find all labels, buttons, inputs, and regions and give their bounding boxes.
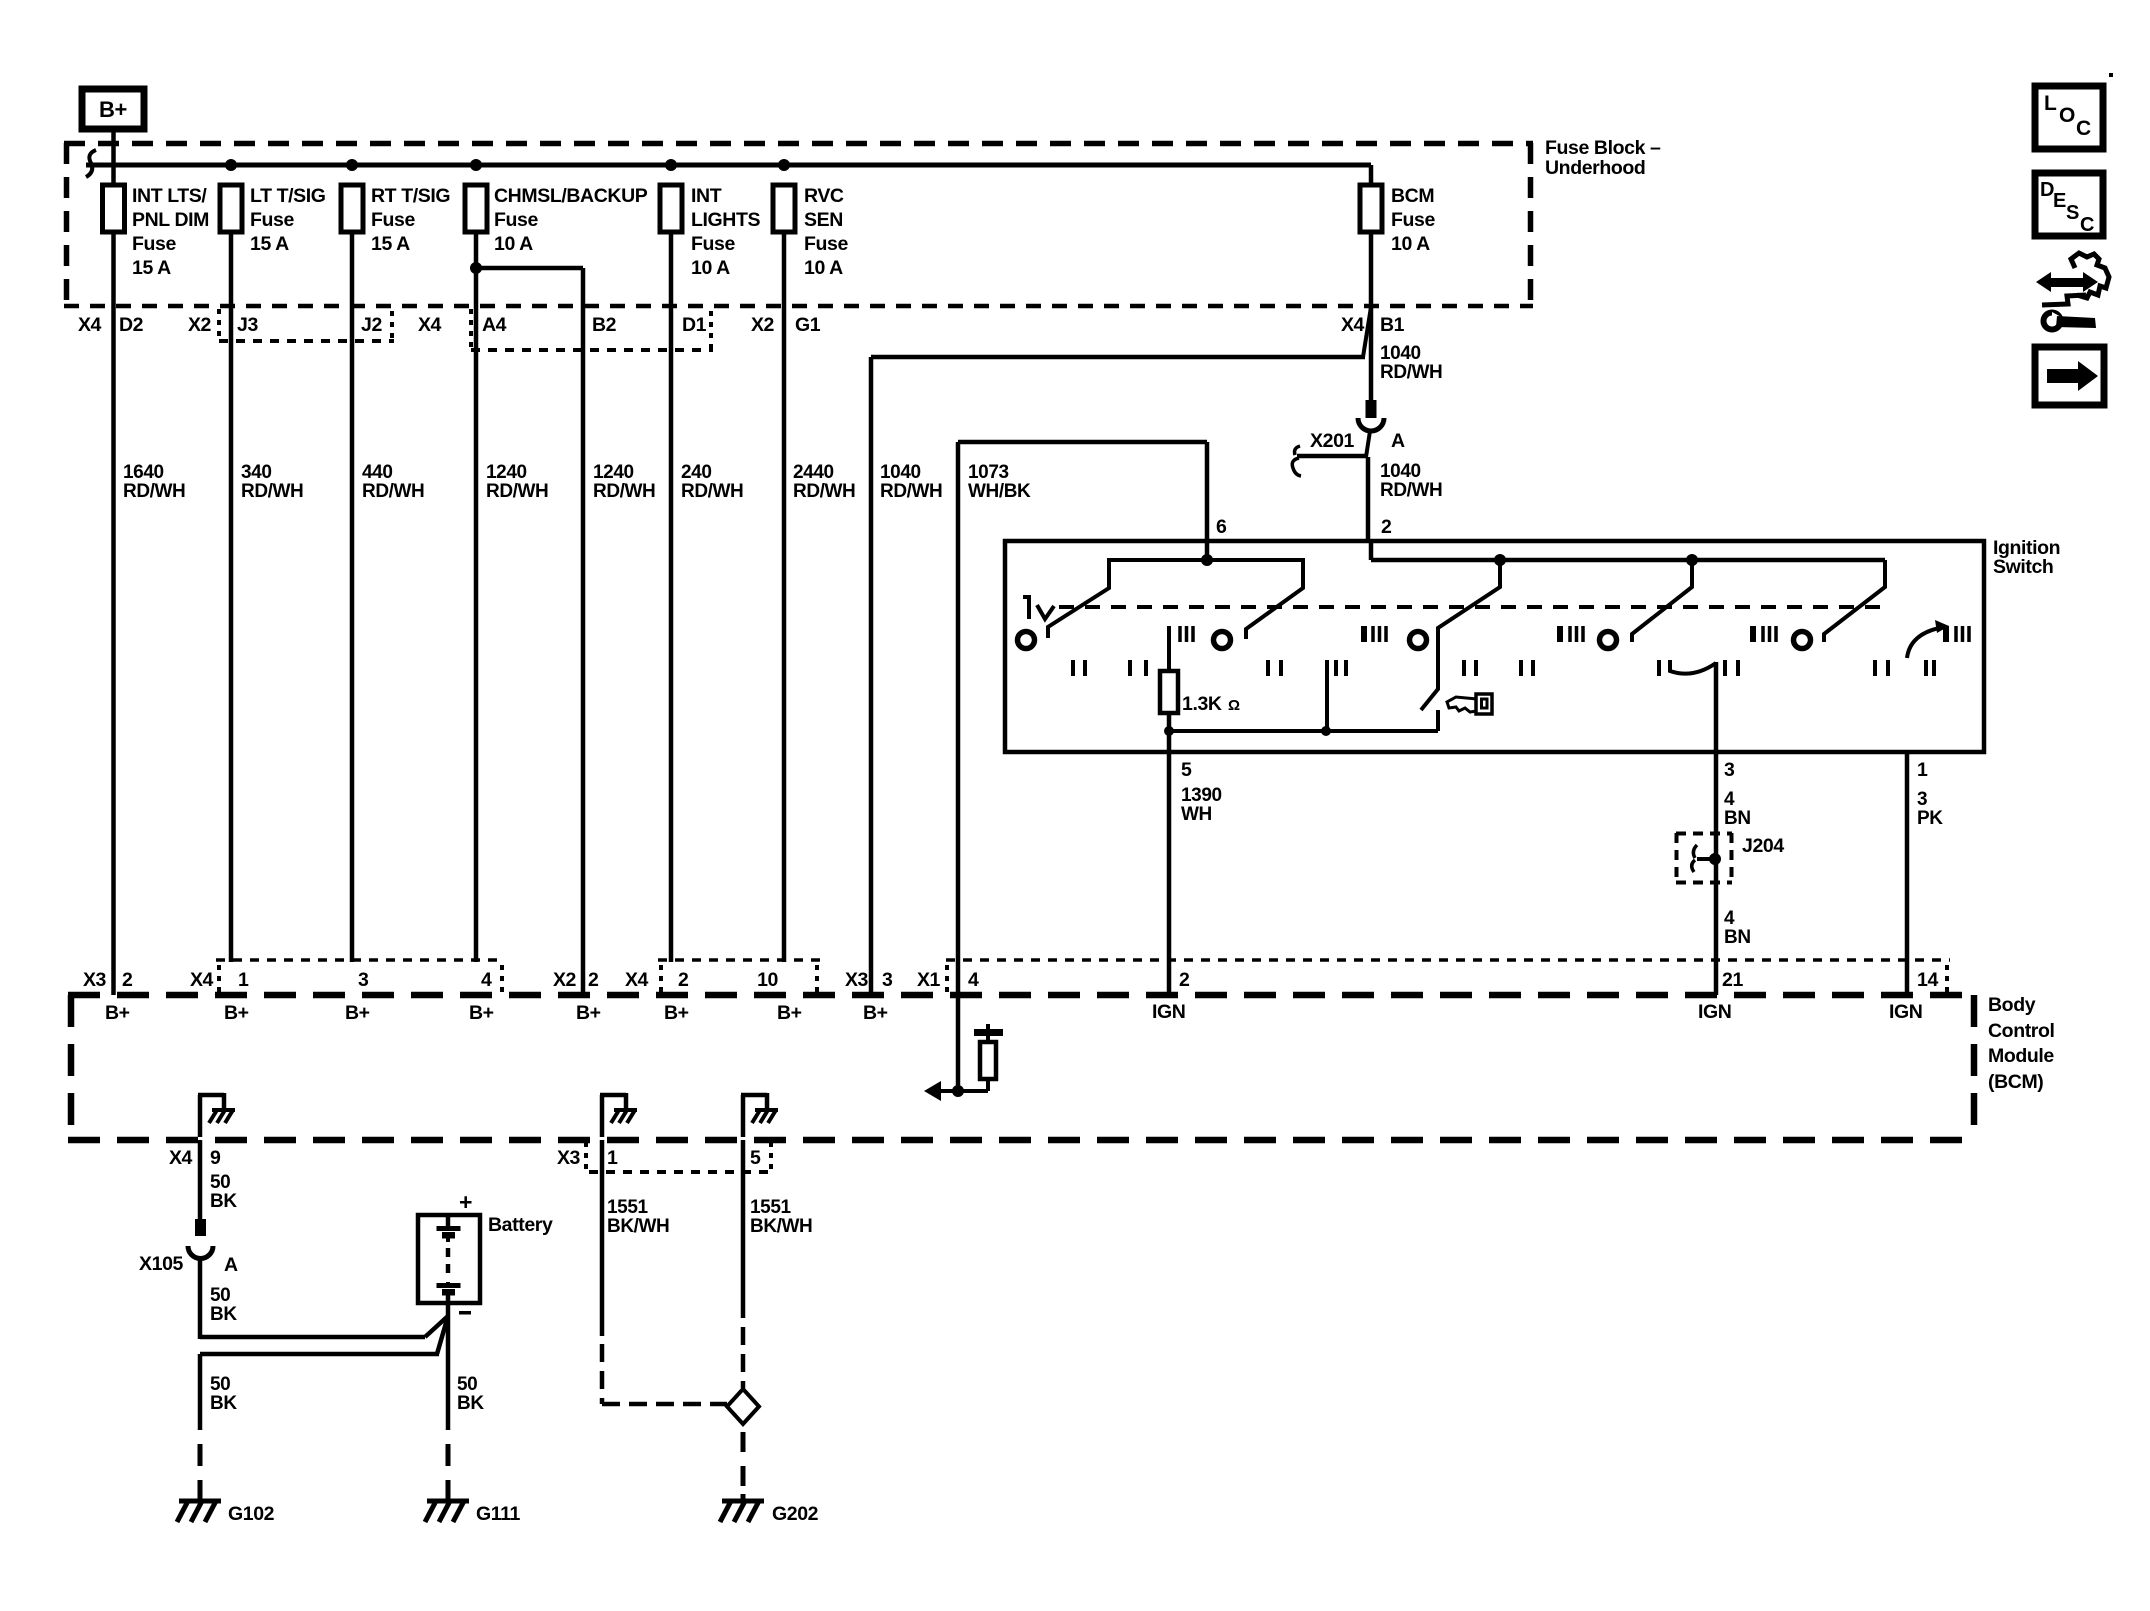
svg-text:B+: B+ — [224, 1002, 249, 1024]
svg-text:1: 1 — [238, 969, 249, 991]
svg-text:D1: D1 — [682, 314, 707, 336]
ignition ticks II j — [1926, 660, 1934, 676]
svg-text:50: 50 — [457, 1374, 477, 1395]
junction ign bus c — [1686, 554, 1698, 566]
svg-text:2: 2 — [122, 969, 133, 991]
pin label X4 D2 — [78, 314, 144, 336]
svg-text:1073: 1073 — [968, 462, 1009, 483]
bcm connector face X1 dashed — [946, 958, 1950, 962]
ignition ticks II d — [1336, 660, 1346, 676]
svg-text:240: 240 — [681, 462, 712, 483]
svg-text:21: 21 — [1722, 969, 1743, 991]
wire 1640 RD/WH fuse1 to BCM X3-2 — [111, 232, 116, 995]
ground G111 — [425, 1444, 521, 1525]
wire B+ drop to fuse 1 — [111, 129, 116, 186]
svg-text:RD/WH: RD/WH — [123, 481, 185, 502]
svg-text:B+: B+ — [576, 1002, 601, 1024]
svg-text:50: 50 — [210, 1374, 230, 1395]
bcm internal ground X3-5 — [741, 1093, 778, 1137]
ignition ticks II i — [1875, 660, 1888, 676]
svg-text:J204: J204 — [1742, 835, 1784, 857]
svg-text:B+: B+ — [345, 1002, 370, 1024]
wire label 1390 WH — [1181, 785, 1222, 825]
svg-text:X201: X201 — [1310, 430, 1354, 452]
svg-text:BK: BK — [210, 1191, 237, 1212]
resistor 1.3Kohm — [1160, 626, 1240, 715]
wire label 1073 WH/BK — [968, 462, 1031, 502]
ignition ticks II c — [1268, 660, 1281, 676]
net label B+ at 863 — [863, 1002, 888, 1024]
pin label 4 — [481, 965, 502, 992]
ignition switch box — [1005, 541, 1984, 752]
svg-text:Fuse Block –: Fuse Block – — [1545, 137, 1661, 159]
pin label X2 G1 — [751, 314, 821, 336]
svg-text:RD/WH: RD/WH — [241, 481, 303, 502]
svg-text:BN: BN — [1724, 927, 1751, 948]
svg-text:E: E — [2053, 190, 2066, 212]
ignition bus pin2 — [1371, 541, 1885, 560]
svg-text:Fuse: Fuse — [250, 209, 294, 231]
svg-text:X4: X4 — [1341, 314, 1365, 336]
svg-text:1551: 1551 — [750, 1197, 792, 1218]
icon LOC box — [2035, 86, 2103, 149]
svg-text:X4: X4 — [625, 969, 649, 991]
ignition blade c — [1632, 560, 1692, 642]
pin label 3 — [358, 969, 369, 991]
svg-text:B+: B+ — [99, 97, 127, 122]
wire label 240 RD/WH — [681, 462, 743, 502]
svg-text:Body: Body — [1988, 994, 2036, 1016]
svg-text:B+: B+ — [777, 1002, 802, 1024]
svg-text:1640: 1640 — [123, 462, 164, 483]
pin label X4 2 — [625, 965, 689, 992]
svg-text:Fuse: Fuse — [691, 233, 735, 255]
svg-text:9: 9 — [210, 1147, 221, 1169]
svg-text:2: 2 — [1381, 516, 1392, 538]
splice J204 box — [1676, 833, 1784, 883]
wire battery to G111 — [446, 1316, 451, 1430]
junction BCM internal — [952, 1085, 964, 1097]
wire label 3 PK — [1917, 789, 1943, 829]
ignition contact circle 5 — [1794, 632, 1811, 649]
pin label 6 — [1216, 516, 1227, 538]
junction bus-fuse6 — [778, 159, 790, 171]
svg-text:3: 3 — [1724, 759, 1735, 781]
svg-text:G102: G102 — [228, 1503, 275, 1525]
pin label X4 9 — [169, 1147, 221, 1169]
svg-text:X2: X2 — [751, 314, 775, 336]
label Ignition Switch — [1993, 537, 2060, 578]
svg-text:Module: Module — [1988, 1045, 2054, 1067]
svg-text:A4: A4 — [482, 314, 507, 336]
wire label 1240 RD/WH — [486, 462, 548, 502]
connector box J3-J2 dotted — [219, 339, 394, 343]
icon continue arrow box — [2035, 347, 2104, 405]
ignition ticks II g — [1657, 660, 1661, 676]
svg-text:IGN: IGN — [1698, 1001, 1731, 1023]
svg-text:+: + — [459, 1189, 472, 1215]
svg-text:X2: X2 — [188, 314, 212, 336]
connector box A4-D1 dotted — [471, 348, 713, 352]
svg-text:RD/WH: RD/WH — [593, 481, 655, 502]
wire 1240 RD/WH fuse4 to X4-4 — [474, 232, 479, 962]
svg-text:D: D — [2040, 179, 2054, 201]
wire 1551 BK/WH pin5 — [741, 1140, 746, 1388]
svg-text:Fuse: Fuse — [494, 209, 538, 231]
fuse F3 RT T/SIG 15A — [341, 185, 450, 255]
svg-text:340: 340 — [241, 462, 272, 483]
bcm connector face X4b dashed — [658, 958, 820, 962]
wire label 340 RD/WH — [241, 462, 303, 502]
svg-text:X4: X4 — [78, 314, 102, 336]
svg-text:10: 10 — [757, 969, 778, 991]
svg-text:Fuse: Fuse — [371, 209, 415, 231]
net label B+ at 576 — [576, 1002, 601, 1024]
svg-text:PK: PK — [1917, 808, 1943, 829]
wire 4 BN J204 to BCM 21 — [1714, 883, 1719, 995]
svg-text:WH/BK: WH/BK — [968, 481, 1031, 502]
svg-text:RT T/SIG: RT T/SIG — [371, 185, 450, 207]
junction fuse4 branch — [470, 262, 482, 274]
svg-text:Battery: Battery — [488, 1214, 553, 1236]
pin label X4 1 — [190, 965, 249, 992]
svg-text:G111: G111 — [476, 1503, 521, 1525]
svg-text:RD/WH: RD/WH — [362, 481, 424, 502]
svg-text:X4: X4 — [169, 1147, 193, 1169]
net label B+ at 105 — [105, 1002, 130, 1024]
svg-text:1: 1 — [607, 1147, 618, 1169]
ignition blade b — [1421, 560, 1500, 710]
ignition ticks II f — [1521, 660, 1533, 676]
pin label X2 J3 — [188, 309, 259, 340]
splice J204 symbol — [1692, 834, 1721, 883]
svg-text:3: 3 — [882, 969, 893, 991]
ignition arc pin1 — [1907, 620, 1949, 658]
svg-text:14: 14 — [1917, 969, 1938, 991]
net label B+ at 345 — [345, 1002, 370, 1024]
svg-text:G1: G1 — [795, 314, 821, 336]
svg-text:RVC: RVC — [804, 185, 844, 207]
svg-text:J2: J2 — [361, 314, 382, 336]
wire label 1040 RD/WH upper right — [1380, 343, 1442, 383]
svg-text:Ω: Ω — [1228, 697, 1240, 714]
wire 1073 into BCM — [956, 962, 961, 1091]
pin label 2 — [1381, 516, 1392, 538]
connector X105 — [139, 1219, 238, 1276]
svg-text:X4: X4 — [418, 314, 442, 336]
ignition ticks III e — [1946, 626, 1969, 642]
svg-text:1: 1 — [1917, 759, 1928, 781]
svg-text:Fuse: Fuse — [1391, 209, 1435, 231]
svg-text:RD/WH: RD/WH — [681, 481, 743, 502]
pin label J2 — [361, 311, 392, 340]
svg-text:LT T/SIG: LT T/SIG — [250, 185, 326, 207]
svg-text:440: 440 — [362, 462, 393, 483]
svg-text:1240: 1240 — [486, 462, 527, 483]
icon DESC box — [2035, 173, 2103, 236]
svg-text:B1: B1 — [1380, 314, 1405, 336]
svg-text:1040: 1040 — [880, 462, 921, 483]
svg-text:Fuse: Fuse — [132, 233, 176, 255]
wire 340 RD/WH fuse2 to X4-1 — [229, 232, 234, 962]
svg-text:B+: B+ — [664, 1002, 689, 1024]
ground G202 — [720, 1432, 819, 1525]
bcm internal resistor — [958, 1024, 1003, 1091]
ignition bottom bus — [1169, 710, 1438, 731]
pin label X3 2 — [83, 969, 133, 991]
svg-text:IGN: IGN — [1152, 1001, 1185, 1023]
pin label B2 — [592, 314, 617, 336]
svg-text:X4: X4 — [190, 969, 214, 991]
svg-text:INT: INT — [691, 185, 722, 207]
svg-text:C: C — [2080, 214, 2094, 236]
net label B+ at 664 — [664, 1002, 689, 1024]
svg-text:A: A — [224, 1254, 238, 1276]
svg-text:5: 5 — [750, 1147, 761, 1169]
svg-text:BK/WH: BK/WH — [750, 1216, 812, 1237]
svg-text:15 A: 15 A — [250, 233, 289, 255]
ignition internal dashed line — [1059, 605, 1881, 609]
svg-text:1390: 1390 — [1181, 785, 1222, 806]
svg-text:X3: X3 — [845, 969, 869, 991]
svg-text:WH: WH — [1181, 804, 1212, 825]
svg-text:RD/WH: RD/WH — [1380, 480, 1442, 501]
svg-text:1.3K: 1.3K — [1182, 693, 1222, 715]
wire label 1040 RD/WH lower — [1380, 461, 1442, 501]
svg-text:1040: 1040 — [1380, 461, 1421, 482]
svg-text:INT LTS/: INT LTS/ — [132, 185, 207, 207]
pin label X4 A4 — [418, 309, 507, 349]
svg-text:O: O — [2059, 104, 2075, 127]
junction bus-fuse3 — [346, 159, 358, 171]
pin label X1 4 — [917, 965, 979, 992]
svg-text:RD/WH: RD/WH — [793, 481, 855, 502]
svg-text:1240: 1240 — [593, 462, 634, 483]
pin label X3 1 5 — [557, 1142, 771, 1172]
wire label 1551 BK/WH a — [607, 1197, 669, 1237]
svg-text:SEN: SEN — [804, 209, 843, 231]
svg-text:2: 2 — [1179, 969, 1190, 991]
net label IGN c — [1889, 1001, 1922, 1023]
svg-text:4: 4 — [481, 969, 492, 991]
svg-text:Fuse: Fuse — [804, 233, 848, 255]
svg-text:RD/WH: RD/WH — [1380, 362, 1442, 383]
wire 50 BK to X105 — [198, 1140, 203, 1219]
wire 1073 WH/BK to ignition pin 6 — [958, 442, 1207, 962]
ignition contact circle 4 — [1600, 632, 1617, 649]
svg-text:B+: B+ — [863, 1002, 888, 1024]
bcm connector face X4a dashed — [216, 958, 505, 962]
label Body Control Module BCM — [1988, 994, 2055, 1093]
svg-text:4: 4 — [968, 969, 979, 991]
wire 50 BK G111 label — [457, 1374, 484, 1414]
splice diamond — [727, 1389, 759, 1424]
svg-text:CHMSL/BACKUP: CHMSL/BACKUP — [494, 185, 648, 207]
ignition ticks II a — [1073, 660, 1085, 676]
svg-text:A: A — [1391, 430, 1405, 452]
wire 50 BK to G102 label — [210, 1374, 237, 1414]
bcm internal ground X3-1 — [600, 1093, 637, 1137]
pin label 14 — [1917, 965, 1947, 992]
svg-text:IGN: IGN — [1889, 1001, 1922, 1023]
svg-text:50: 50 — [210, 1285, 230, 1306]
wire label 1640 RD/WH — [123, 462, 185, 502]
fuse F5 INT LIGHTS 10A — [660, 185, 760, 279]
power node B+ box — [82, 89, 144, 129]
junction bus-fuse2 — [225, 159, 237, 171]
ignition arc pin3 — [1670, 660, 1716, 674]
svg-text:X3: X3 — [83, 969, 107, 991]
stray dot — [2109, 73, 2113, 77]
junction bottom bus b — [1321, 726, 1331, 736]
pin label 3 — [1724, 759, 1735, 781]
fuse F1 INT LTS/PNL DIM 15A — [103, 185, 210, 279]
svg-text:(BCM): (BCM) — [1988, 1071, 2043, 1093]
svg-text:Underhood: Underhood — [1545, 157, 1645, 179]
wire label 440 RD/WH — [362, 462, 424, 502]
wire pin6 inside — [1205, 541, 1210, 560]
pin label 5 — [1181, 759, 1192, 781]
net label IGN b — [1698, 1001, 1731, 1023]
wire 1390 WH ignition pin5 to BCM — [1167, 731, 1172, 995]
svg-text:10 A: 10 A — [804, 257, 843, 279]
junction bus-fuse4 — [470, 159, 482, 171]
svg-text:2: 2 — [678, 969, 689, 991]
wire contact stub — [1325, 660, 1329, 731]
wire 1240 RD/WH branch to X2-2 — [476, 268, 583, 995]
svg-text:X1: X1 — [917, 969, 941, 991]
pin label 2 ign — [1179, 969, 1190, 991]
pin label 10 — [757, 965, 817, 992]
ignition blade wire pole A — [1048, 560, 1303, 639]
svg-text:D2: D2 — [119, 314, 144, 336]
fuse F6 RVC SEN 10A — [773, 185, 848, 279]
wire label 50 BK a — [210, 1172, 237, 1212]
svg-text:X2: X2 — [553, 969, 577, 991]
svg-text:Control: Control — [1988, 1020, 2055, 1042]
wire label 2440 RD/WH — [793, 462, 855, 502]
bcm internal ground X4-9 — [198, 1093, 235, 1137]
wire label 1240 RD/WH — [593, 462, 655, 502]
svg-text:C: C — [2076, 117, 2091, 140]
wire 2440 RD/WH fuse6 to X2-G1/10 — [782, 232, 787, 962]
svg-text:LIGHTS: LIGHTS — [691, 209, 760, 231]
pin label D1 — [682, 311, 711, 349]
svg-text:J3: J3 — [237, 314, 258, 336]
pin label X3 3 — [845, 969, 893, 991]
ignition ticks II b — [1130, 660, 1146, 676]
svg-text:BK/WH: BK/WH — [607, 1216, 669, 1237]
fuse F4 CHMSL/BACKUP 10A — [465, 185, 648, 255]
junction bottom bus a — [1164, 726, 1174, 736]
label Fuse Block - Underhood — [1545, 137, 1661, 179]
ignition ticks III d — [1753, 626, 1776, 642]
svg-text:X105: X105 — [139, 1253, 183, 1275]
ignition contact circle 3 — [1410, 632, 1427, 649]
wire label 4 BN lower — [1724, 908, 1751, 948]
svg-text:B+: B+ — [105, 1002, 130, 1024]
ignition key symbol — [1447, 694, 1492, 714]
wire label 50 BK b — [210, 1285, 237, 1325]
pin label 21 — [1722, 969, 1743, 991]
svg-text:3: 3 — [358, 969, 369, 991]
svg-text:10 A: 10 A — [1391, 233, 1430, 255]
svg-text:BK: BK — [210, 1393, 237, 1414]
svg-text:1551: 1551 — [607, 1197, 649, 1218]
pin label 1 — [1917, 759, 1928, 781]
ignition ticks II h — [1725, 660, 1738, 676]
fuse F7 BCM 10A — [1360, 185, 1435, 255]
wire 50 BK X105 to battery — [200, 1260, 448, 1339]
wire label 1040 RD/WH — [880, 462, 942, 502]
svg-text:X3: X3 — [557, 1147, 581, 1169]
wire 1551 BK/WH pin1 — [602, 1140, 727, 1404]
wire BCM fuse drop — [1369, 165, 1374, 186]
svg-text:BCM: BCM — [1391, 185, 1434, 207]
ignition ticks II e — [1464, 660, 1476, 676]
svg-text:PNL DIM: PNL DIM — [132, 209, 209, 231]
wire battery minus node — [200, 1303, 448, 1430]
svg-text:BK: BK — [457, 1393, 484, 1414]
ignition contact circle 2 — [1214, 632, 1231, 649]
wire 3 PK ignition pin1 to BCM 14 — [1905, 754, 1910, 995]
svg-text:BK: BK — [210, 1304, 237, 1325]
wire 240 RD/WH fuse5 to X4-2 — [669, 232, 674, 962]
junction ign bus b — [1494, 554, 1506, 566]
svg-text:2: 2 — [588, 969, 599, 991]
svg-text:15 A: 15 A — [132, 257, 171, 279]
ignition blade d — [1824, 560, 1885, 642]
pin label X2 2 — [553, 969, 599, 991]
svg-text:B+: B+ — [469, 1002, 494, 1024]
svg-text:L: L — [2044, 92, 2057, 115]
battery — [418, 1189, 553, 1315]
svg-text:B2: B2 — [592, 314, 617, 336]
net label B+ at 224 — [224, 1002, 249, 1024]
ignition ticks III c — [1560, 626, 1583, 642]
svg-text:S: S — [2066, 202, 2079, 224]
wire 1040 RD/WH BCM fuse to X201 — [871, 232, 1371, 995]
ignition ticks III a — [1180, 626, 1193, 642]
body control module dashed box — [68, 995, 1975, 1140]
ground G102 — [177, 1444, 275, 1525]
svg-text:10 A: 10 A — [691, 257, 730, 279]
ignition key-sense mark — [1023, 597, 1054, 619]
svg-text:15 A: 15 A — [371, 233, 410, 255]
svg-text:G202: G202 — [772, 1503, 819, 1525]
svg-text:50: 50 — [210, 1172, 230, 1193]
svg-text:4: 4 — [1724, 908, 1735, 929]
svg-text:1040: 1040 — [1380, 343, 1421, 364]
svg-text:RD/WH: RD/WH — [880, 481, 942, 502]
svg-text:5: 5 — [1181, 759, 1192, 781]
fuse block underhood dashed box — [64, 143, 1533, 306]
svg-text:BN: BN — [1724, 808, 1751, 829]
wire 440 RD/WH fuse3 to X4-3 — [350, 232, 355, 962]
wire B+ bus — [86, 150, 1371, 177]
ignition ticks III b — [1364, 626, 1386, 642]
svg-text:6: 6 — [1216, 516, 1227, 538]
bcm internal arrow — [924, 1081, 958, 1101]
svg-text:2440: 2440 — [793, 462, 834, 483]
wire 4 BN ignition pin3 — [1714, 662, 1719, 834]
connector X201 — [1292, 400, 1405, 476]
junction bus-fuse5 — [665, 159, 677, 171]
pin label X4 B1 — [1341, 314, 1405, 336]
net label B+ at 777 — [777, 1002, 802, 1024]
svg-text:10 A: 10 A — [494, 233, 533, 255]
wire 1040 RD/WH X201 to ignition pin2 — [1366, 457, 1371, 541]
